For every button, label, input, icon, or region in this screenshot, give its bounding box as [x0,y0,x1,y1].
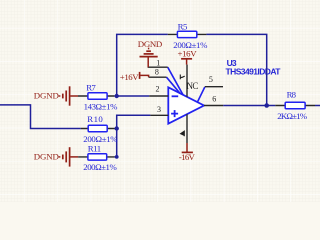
svg-text:5: 5 [209,75,213,84]
resistor R7 [78,93,114,99]
label R7 [86,83,96,93]
power DGND top at pin1 [140,49,158,68]
wire: input net from left edge down to R10 [0,105,81,129]
svg-text:8: 8 [155,67,159,76]
op-amp minus input mark [172,95,179,97]
value 200ohm R11 [83,162,117,172]
designator U3 [227,58,237,68]
pin number 8 [155,67,159,76]
svg-text:DGND: DGND [34,152,59,162]
wire: non-inverting vertical joining R10 R11 pin3 [115,115,151,157]
pin number 1 [156,59,160,68]
svg-text:DGND: DGND [34,91,59,101]
svg-text:R7: R7 [86,83,96,93]
svg-text:R5: R5 [178,21,188,31]
comment THS3491IDDAT [226,67,282,77]
svg-text:R8: R8 [287,90,297,100]
svg-text:R10: R10 [87,114,103,124]
resistor R11 [78,154,115,160]
label R5 [178,21,188,31]
label -16V bottom [179,152,196,162]
junction node at R10 [115,126,119,130]
svg-text:143Ω±1%: 143Ω±1% [84,101,118,111]
power +16V left at pin8 [140,72,149,79]
label +16V left [120,72,139,82]
svg-text:+16V: +16V [178,49,198,59]
pin 6 [204,105,223,107]
op-amp pin8 connector diagonal [167,77,181,93]
wire: R8 right to edge [315,105,320,107]
svg-text:THS3491IDDAT: THS3491IDDAT [226,67,282,77]
junction node inverting input [115,94,119,98]
label R8 [287,90,297,100]
svg-text:-16V: -16V [179,152,196,162]
pin 8 [149,76,167,78]
label DGND top [138,39,162,49]
wire: R7 right lead to inverting node [114,95,117,97]
pin 4 [186,114,188,143]
pin 5 [205,86,223,88]
label +16V top [178,49,198,59]
svg-text:3: 3 [157,105,161,114]
pin number 3 [157,105,161,114]
svg-text:DGND: DGND [138,39,162,49]
svg-text:R11: R11 [88,143,101,153]
op-amp plus input mark [171,110,178,117]
svg-text:NC: NC [187,81,199,91]
value 2Kohm R8 [277,111,307,121]
power ground DGND at R7 [60,86,79,105]
wire: output pin6 to R8 [223,105,275,107]
op-amp pin1 connector diagonal [168,67,183,95]
svg-text:6: 6 [212,95,216,104]
wire: inverting node to pin 2 [117,95,150,97]
wire: feedback vertical and top run to R5 left [117,34,168,96]
svg-text:200Ω±1%: 200Ω±1% [83,162,117,172]
op-amp U3 triangle body [168,87,204,123]
value 200ohm R10 [83,134,118,144]
junction node at output [264,103,269,108]
power -16V bottom at pin4 [182,143,193,152]
svg-text:1: 1 [156,59,160,68]
pin number 2 [156,84,160,93]
label DGND at R11 [34,152,59,162]
wire: R5 right to output node vertical [206,34,266,105]
svg-text:2: 2 [156,84,160,93]
pin number 5 [209,75,213,84]
label DGND at R7 [34,91,59,101]
svg-text:200Ω±1%: 200Ω±1% [83,134,118,144]
label R10 [87,114,103,124]
power +16V top at pin7 [181,59,192,65]
value 200ohm R5 [173,40,208,50]
resistor R10 [81,125,115,131]
pin 3 [150,114,168,116]
power ground DGND at R11 [60,147,79,166]
pin number 4 [181,131,185,137]
pin 2 [149,95,168,97]
svg-text:+16V: +16V [120,72,139,82]
pin name NC [187,81,199,91]
pin 7 [186,65,188,97]
value 143ohm R7 [84,101,118,111]
label R11 [88,143,101,153]
pin 1 [148,66,168,68]
resistor R5 [168,31,207,37]
pin number 7 [180,75,184,80]
pin number 6 [212,95,216,104]
resistor R8 [275,102,315,108]
op-amp pin5 connector diagonal [197,87,204,102]
svg-text:2KΩ±1%: 2KΩ±1% [277,111,307,121]
junction node at R11 [115,155,119,159]
